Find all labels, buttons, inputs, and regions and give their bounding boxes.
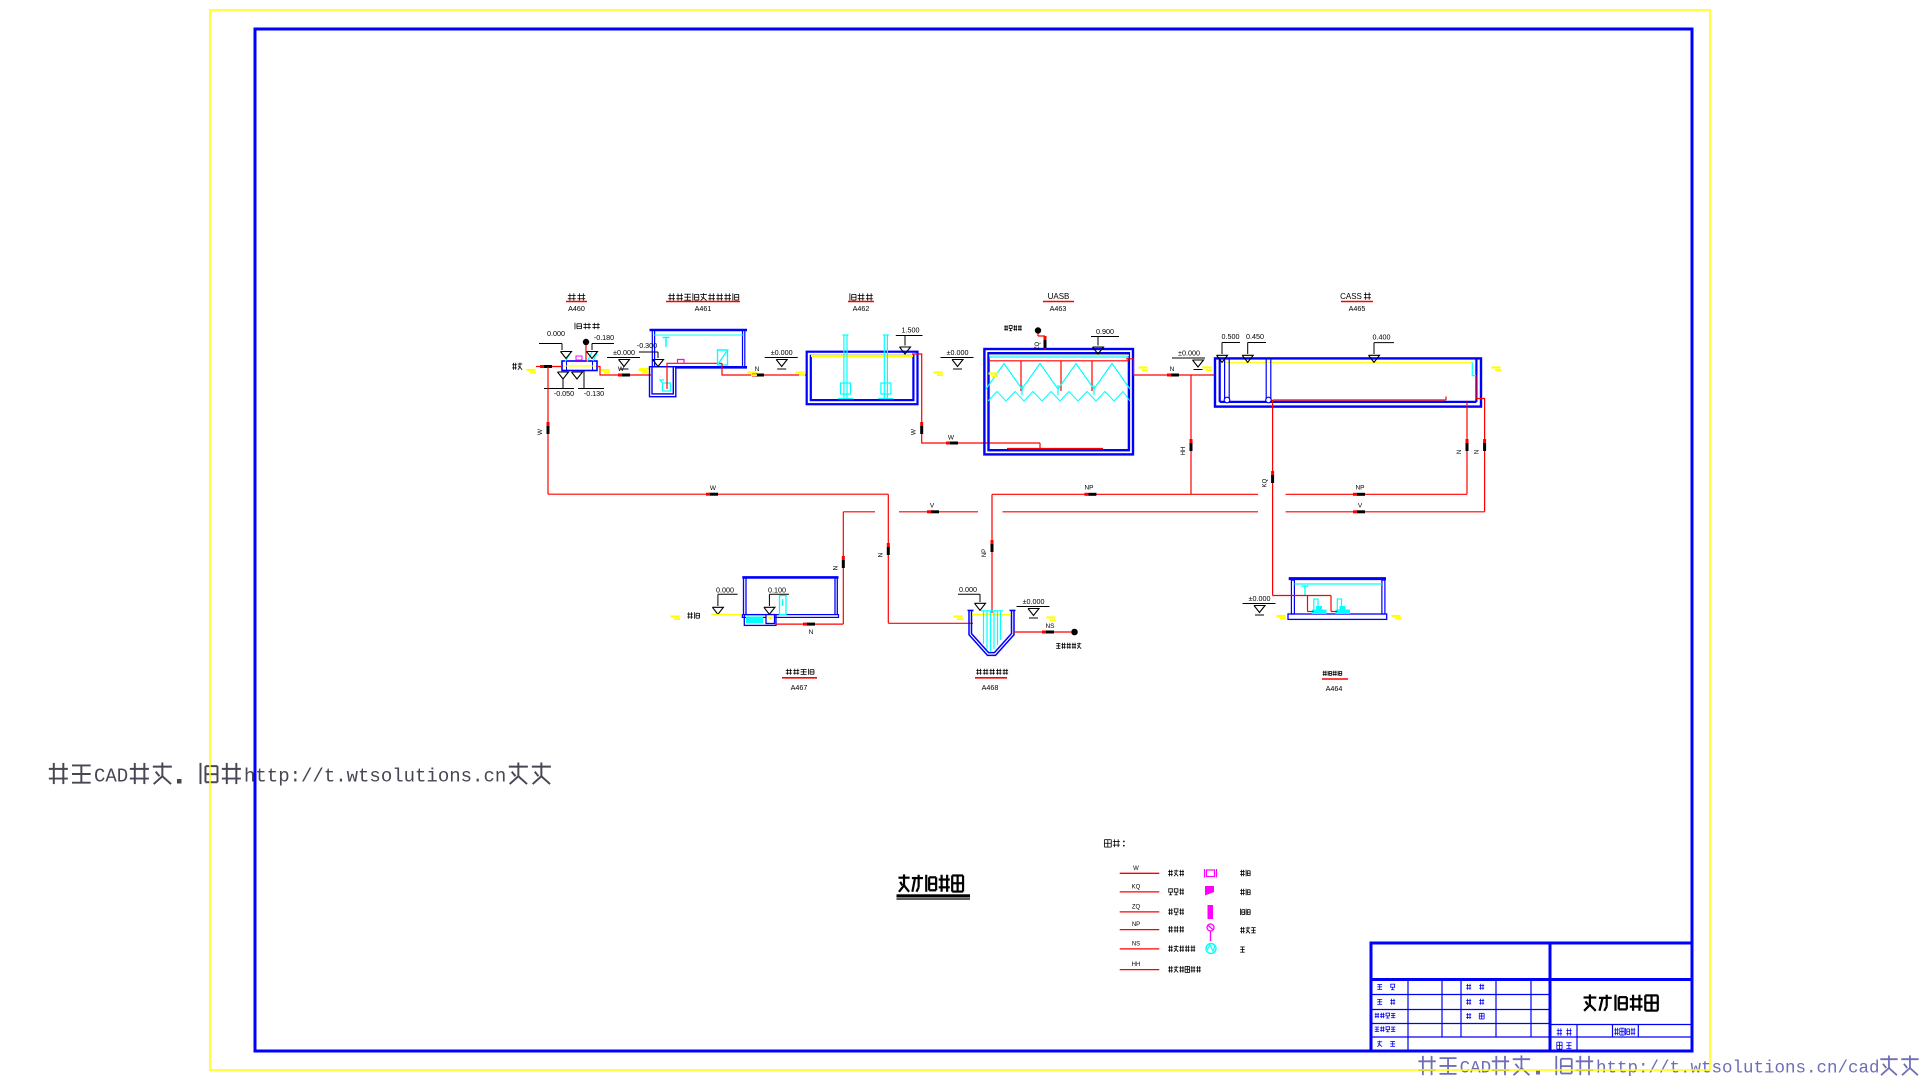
svg-text:±0.000: ±0.000	[1249, 594, 1271, 603]
svg-text:KQ: KQ	[1132, 884, 1141, 890]
svg-text:HH: HH	[1181, 447, 1187, 456]
svg-text:-0.300: -0.300	[637, 341, 657, 350]
svg-text:N: N	[1475, 450, 1481, 454]
svg-text:HH: HH	[1132, 962, 1141, 968]
ground hatch left of A460	[527, 369, 537, 374]
A464 blower 1	[1312, 599, 1327, 614]
tank A462 调节池 label	[848, 293, 874, 313]
level -0.180 at A460	[587, 333, 615, 359]
svg-text:NP: NP	[1132, 922, 1140, 928]
ground symbol left of UASB	[941, 348, 974, 369]
svg-text:±0.000: ±0.000	[1178, 349, 1200, 358]
svg-text:NP: NP	[982, 549, 988, 557]
A462 water level yellow	[811, 355, 913, 357]
svg-text:N: N	[1170, 366, 1175, 373]
svg-text:0.000: 0.000	[959, 585, 977, 594]
legend line W	[1120, 866, 1184, 876]
A467 building	[742, 577, 838, 617]
legend icon aerator	[1206, 944, 1245, 954]
A461 crane beam cyan	[654, 335, 744, 347]
title block left table lines	[1371, 980, 1550, 1052]
A461 sump pit	[650, 367, 676, 397]
wire N drop through CASS bottom	[1466, 402, 1468, 494]
ground line left of A467	[671, 612, 743, 620]
svg-text:0.000: 0.000	[547, 329, 565, 338]
UASB red collection line	[989, 360, 1129, 362]
title block right cell lines	[1550, 1025, 1692, 1052]
svg-text:0.500: 0.500	[1222, 332, 1240, 341]
svg-text:±0.000: ±0.000	[771, 348, 793, 357]
svg-text:-0.180: -0.180	[594, 333, 614, 342]
CASS baffle 2	[1266, 358, 1272, 403]
tank A461 提升泵房及细格栅间 label	[666, 293, 740, 313]
title block outer border	[1371, 943, 1692, 1051]
title block labels right column	[1557, 1028, 1636, 1049]
ground symbol left of A464	[1243, 594, 1276, 615]
wire A460 to A461 sump	[597, 366, 651, 377]
A464 building	[1288, 579, 1387, 620]
level 0.000 at A468	[958, 585, 986, 610]
svg-text:0.100: 0.100	[768, 586, 786, 595]
wire A467 outlet	[776, 623, 843, 636]
ground symbol between A460 and A461	[607, 348, 640, 369]
svg-text:NS: NS	[1132, 941, 1140, 947]
tank A460 格栅 label	[566, 293, 587, 313]
UASB bottom distribution pipe	[1007, 443, 1103, 449]
level -0.300 at A461 sump	[637, 341, 664, 367]
svg-text:V: V	[930, 503, 935, 510]
ground symbol left of A462	[765, 348, 798, 369]
A461 pump riser pipe	[667, 363, 722, 389]
UASB water level yellow	[989, 354, 1129, 356]
biogas valve dot on UASB	[1035, 328, 1047, 350]
CASS baffle 1	[1224, 358, 1230, 403]
tank A460 bar screen channel	[562, 352, 597, 371]
wire KQ into blowers	[1273, 596, 1338, 612]
A461 building roof and walls	[650, 330, 748, 367]
ground hatch left of A468	[954, 615, 964, 620]
svg-text:N: N	[832, 565, 839, 570]
level 0.100 at A467	[764, 586, 789, 615]
CASS effluent pipe in wall	[1476, 376, 1485, 512]
svg-text:CAD: CAD	[1460, 1059, 1492, 1079]
UASB three-phase separator zigzag upper	[986, 364, 1130, 390]
tank A462 walls	[807, 352, 918, 405]
label 沼气外输 biogas	[1004, 325, 1022, 331]
legend icon pump symbol	[1207, 924, 1256, 941]
svg-text:A465: A465	[1349, 304, 1366, 313]
svg-text:W: W	[1133, 866, 1139, 872]
label sludge disposal	[1056, 643, 1081, 649]
wire W drop to A468	[877, 494, 973, 623]
svg-text:±0.000: ±0.000	[613, 348, 635, 357]
wire V drop to A467 outlet	[832, 512, 845, 624]
tank CASS A465 label	[1340, 292, 1373, 313]
svg-text:A467: A467	[791, 683, 808, 692]
svg-text:NS: NS	[1045, 623, 1055, 630]
legend line HH	[1120, 962, 1201, 972]
wire V main horizontal	[843, 503, 1484, 514]
ground hatch right of CASS	[1492, 366, 1502, 371]
svg-text:A461: A461	[695, 304, 712, 313]
level 0.000 at A467	[712, 586, 737, 615]
level 0.500 at CASS	[1217, 332, 1241, 362]
legend line NP	[1120, 922, 1184, 932]
valve on A460 with riser	[583, 339, 588, 361]
tank UASB A463 label	[1043, 292, 1074, 313]
wire HH riser from junction	[1181, 375, 1193, 494]
label 闸槽渠	[575, 323, 600, 329]
ground symbol right of A468	[1017, 597, 1050, 618]
marks on CASS drop pipes	[1457, 439, 1486, 454]
tank A467 label	[782, 669, 817, 692]
svg-text:ZQ: ZQ	[1132, 904, 1141, 910]
CASS water level yellow	[1222, 361, 1472, 363]
legend icon flap gate	[1205, 886, 1250, 896]
watermark bottom right text	[1418, 1055, 1918, 1078]
A461 submersible pump	[660, 380, 671, 391]
svg-text:NP: NP	[1355, 485, 1364, 492]
svg-text:W: W	[537, 428, 544, 435]
svg-text:A462: A462	[853, 304, 870, 313]
ground hatch left of A461 sump	[640, 368, 650, 373]
svg-text:A460: A460	[568, 304, 585, 313]
CASS air pipe in tank	[1273, 397, 1446, 401]
tank CASS walls	[1215, 358, 1481, 406]
svg-text:UASB: UASB	[1048, 292, 1070, 301]
A462 mixer 2	[878, 335, 893, 399]
svg-text:-0.050: -0.050	[554, 389, 574, 398]
A468 water level yellow	[972, 614, 1011, 616]
A467 cyan standpipe	[780, 596, 787, 615]
wire KQ drop from CASS	[1263, 400, 1275, 596]
svg-text:KQ: KQ	[1263, 478, 1269, 487]
drawing title 水力高程图 with underline	[897, 874, 971, 899]
tank A464 鼓风机房 label	[1322, 671, 1348, 693]
svg-text:±0.000: ±0.000	[947, 348, 969, 357]
svg-text:CASS: CASS	[1340, 292, 1362, 301]
wire NP riser to A468	[982, 494, 994, 613]
svg-text:W: W	[948, 435, 955, 442]
svg-text:0.000: 0.000	[716, 586, 734, 595]
A461 fine screen unit	[717, 350, 729, 365]
UASB three-phase separator zigzag lower	[988, 392, 1130, 402]
svg-text:±0.000: ±0.000	[1023, 597, 1045, 606]
svg-text:CAD: CAD	[94, 766, 128, 788]
UASB cyan effluent trough line	[989, 356, 1129, 358]
svg-text:http://t.wtsolutions.cn: http://t.wtsolutions.cn	[244, 766, 506, 788]
level 0.900 at UASB	[1091, 327, 1119, 354]
svg-text:W: W	[710, 485, 717, 492]
A467 sump with water	[744, 615, 776, 626]
A468 cyan internals	[981, 611, 1003, 652]
svg-text:-0.130: -0.130	[584, 389, 604, 398]
tank A468 hopper walls	[968, 610, 1016, 655]
A461 magenta fitting	[678, 360, 685, 364]
tank A468 污泥浓缩池 label	[975, 669, 1008, 692]
svg-text:A468: A468	[982, 683, 999, 692]
legend line NS	[1120, 941, 1196, 951]
svg-text:N: N	[877, 552, 884, 557]
wire A462 outlet to UASB	[911, 354, 1041, 445]
ground symbol left of CASS	[1172, 349, 1205, 370]
wire W drop from inlet junction	[537, 367, 550, 495]
watermark left text	[49, 762, 551, 787]
title block labels left column	[1375, 984, 1484, 1047]
tank UASB walls	[984, 349, 1133, 454]
A464 crane beam cyan	[1294, 584, 1382, 595]
svg-text:NP: NP	[1084, 485, 1093, 492]
level 0.000 at A460	[539, 329, 572, 359]
legend line ZQ	[1120, 904, 1184, 914]
wire NP main horizontal	[992, 485, 1467, 496]
CASS decanter weir cyan	[1472, 362, 1476, 375]
level 1.500 at A462	[896, 326, 923, 355]
label 进水 inflow	[512, 363, 522, 370]
level 0.450 at CASS	[1242, 332, 1266, 362]
svg-text:0.900: 0.900	[1096, 327, 1114, 336]
svg-text:0.450: 0.450	[1246, 332, 1264, 341]
svg-text:http://t.wtsolutions.cn/cad: http://t.wtsolutions.cn/cad	[1596, 1059, 1880, 1079]
legend icon sluice	[1208, 905, 1251, 919]
legend title 图例	[1104, 839, 1124, 847]
svg-text:V: V	[1358, 503, 1363, 510]
A462 mixer 1	[838, 335, 853, 399]
wire UASB outlet to CASS	[1126, 359, 1215, 377]
svg-text:0.400: 0.400	[1373, 333, 1391, 342]
title block drawing name 水力高程图	[1584, 994, 1658, 1010]
svg-text:ZQ: ZQ	[1035, 342, 1041, 351]
svg-text:W: W	[911, 428, 918, 435]
wire NS sludge disposal	[1014, 623, 1077, 635]
svg-text:1.500: 1.500	[902, 326, 920, 335]
levels -0.050 and -0.130 below A460	[544, 371, 604, 399]
svg-text:A463: A463	[1050, 304, 1067, 313]
inner frame blue	[255, 29, 1692, 1051]
svg-text:A464: A464	[1326, 684, 1343, 693]
wire A461 to A462	[722, 363, 807, 376]
UASB separator hanging baffles	[1022, 385, 1094, 395]
svg-text:N: N	[1457, 450, 1463, 454]
wire W main horizontal	[548, 485, 888, 496]
legend line KQ	[1120, 884, 1184, 894]
UASB red downcomers	[1021, 361, 1092, 391]
outer frame yellow	[210, 10, 1710, 1070]
level 0.400 at CASS	[1369, 333, 1395, 363]
A464 blower 2	[1336, 599, 1351, 614]
svg-text:N: N	[809, 629, 814, 636]
legend icon gate	[1205, 869, 1251, 878]
wire W inflow to A460	[536, 365, 562, 368]
